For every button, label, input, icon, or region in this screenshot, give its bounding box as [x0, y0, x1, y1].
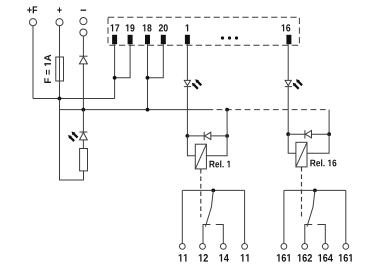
wire rel16 coil left lead	[288, 134, 296, 153]
wire bus solid	[60, 109, 214, 111]
LED ch1 arrows	[192, 79, 202, 89]
node 18/20	[146, 76, 150, 80]
LED ch16 arrows	[293, 79, 303, 89]
terminal 161 left	[281, 244, 287, 250]
LED channel 1	[184, 80, 191, 86]
wire rel16 diode left	[288, 133, 305, 135]
wire LED1 to coil node	[186, 87, 188, 136]
wire H1 +F/+ tie	[33, 98, 115, 100]
label F = 1A	[44, 55, 51, 83]
wire pin 17 down	[114, 44, 116, 98]
pin 19	[126, 24, 135, 44]
contact NC 12	[203, 225, 210, 244]
wire bus to LED	[82, 110, 84, 132]
resistor R1	[80, 149, 88, 171]
pin 17	[111, 24, 120, 44]
node bus rel1	[225, 108, 229, 112]
wire pin 16 down	[287, 44, 289, 80]
label 161	[277, 254, 290, 262]
pin 16	[282, 24, 292, 44]
LED power arrows	[68, 132, 78, 142]
node rel1 blade pivot	[211, 189, 215, 193]
diode D1	[79, 56, 87, 64]
label 164	[318, 254, 333, 262]
wire power branch left	[60, 99, 84, 181]
contact NO 164	[317, 225, 325, 244]
wire rel1 diode left	[187, 135, 204, 137]
wire fuse to node A	[59, 81, 61, 99]
wire bus dashed	[217, 109, 330, 111]
actuator link rel16 dashed	[301, 167, 303, 217]
wire − to diode D1	[82, 36, 84, 56]
wire rel1 contact common rail	[182, 189, 244, 191]
wire rel1 diode right	[211, 135, 227, 137]
LED channel 16	[285, 80, 292, 86]
fuse F = 1A	[56, 57, 64, 81]
label 162	[298, 254, 312, 262]
node rel16 blade pivot	[313, 189, 317, 193]
wire +F down	[32, 26, 34, 99]
label 11b	[241, 254, 249, 261]
wire rel1 com left to terminal 11	[181, 190, 183, 243]
label 11	[179, 254, 187, 261]
terminal 11 left	[179, 244, 185, 250]
wire LED16 to coil node	[287, 87, 289, 135]
dashed connector box	[108, 17, 299, 45]
wire rel1 com right to terminal 11	[244, 190, 246, 243]
contact NO 14	[216, 225, 224, 244]
wire pin 18 down	[147, 44, 149, 109]
terminal −	[80, 10, 87, 36]
wire rel1 coil left lead	[187, 136, 195, 156]
switch blade rel16	[307, 190, 315, 226]
node bus 18/20	[146, 108, 150, 112]
LED power diode	[79, 132, 87, 140]
node fuse/H1	[58, 97, 62, 101]
node rel16 left	[286, 132, 290, 136]
terminal 164	[322, 244, 328, 250]
wire rel16 diode right	[312, 133, 330, 135]
terminal 161 right	[343, 244, 349, 250]
wire rel1 coil right lead	[206, 136, 227, 156]
actuator link rel1 dashed	[200, 169, 202, 217]
switch blade rel1	[205, 190, 213, 226]
node rel1 right	[225, 134, 229, 138]
relay coil Rel. 16	[296, 142, 307, 167]
wire rel16 com right to terminal 161	[345, 190, 347, 243]
wire rel16 contact common rail	[284, 189, 346, 191]
label Rel. 1	[209, 160, 229, 167]
diode rel1 freewheel	[204, 132, 211, 140]
pin 20	[159, 24, 168, 44]
ellipsis dots	[221, 36, 238, 39]
wire rel16 coil right lead	[307, 134, 329, 153]
terminal 12	[200, 244, 206, 250]
terminal +F	[27, 6, 37, 25]
terminal 14	[220, 244, 226, 250]
wire rel1 right up to bus	[226, 110, 228, 136]
wire rel16 com left to terminal 161	[283, 190, 285, 243]
diode rel16 freewheel	[305, 130, 312, 138]
wire LED to resistor	[82, 140, 84, 149]
pin 18	[143, 24, 152, 44]
wire − to bus	[82, 64, 84, 110]
relay coil Rel. 1	[195, 144, 206, 169]
wire pin 20 down	[148, 44, 164, 78]
node rel16 right	[327, 132, 331, 136]
label 12	[199, 254, 208, 262]
terminal +	[56, 7, 63, 25]
node rel1 left	[186, 134, 190, 138]
contact NC 162	[305, 225, 312, 244]
pin 1	[185, 24, 190, 44]
label 14	[219, 254, 229, 261]
wire pin 19 down	[115, 44, 131, 78]
wire pin 1 down	[186, 44, 188, 80]
terminal 11 right	[242, 244, 248, 250]
node 17/19	[113, 76, 117, 80]
label 161b	[339, 254, 352, 262]
wire + to fuse	[59, 26, 61, 57]
label Rel. 16	[310, 159, 336, 166]
node bus −	[82, 108, 86, 112]
terminal 162	[302, 244, 308, 250]
wire bus corner down	[328, 110, 330, 135]
